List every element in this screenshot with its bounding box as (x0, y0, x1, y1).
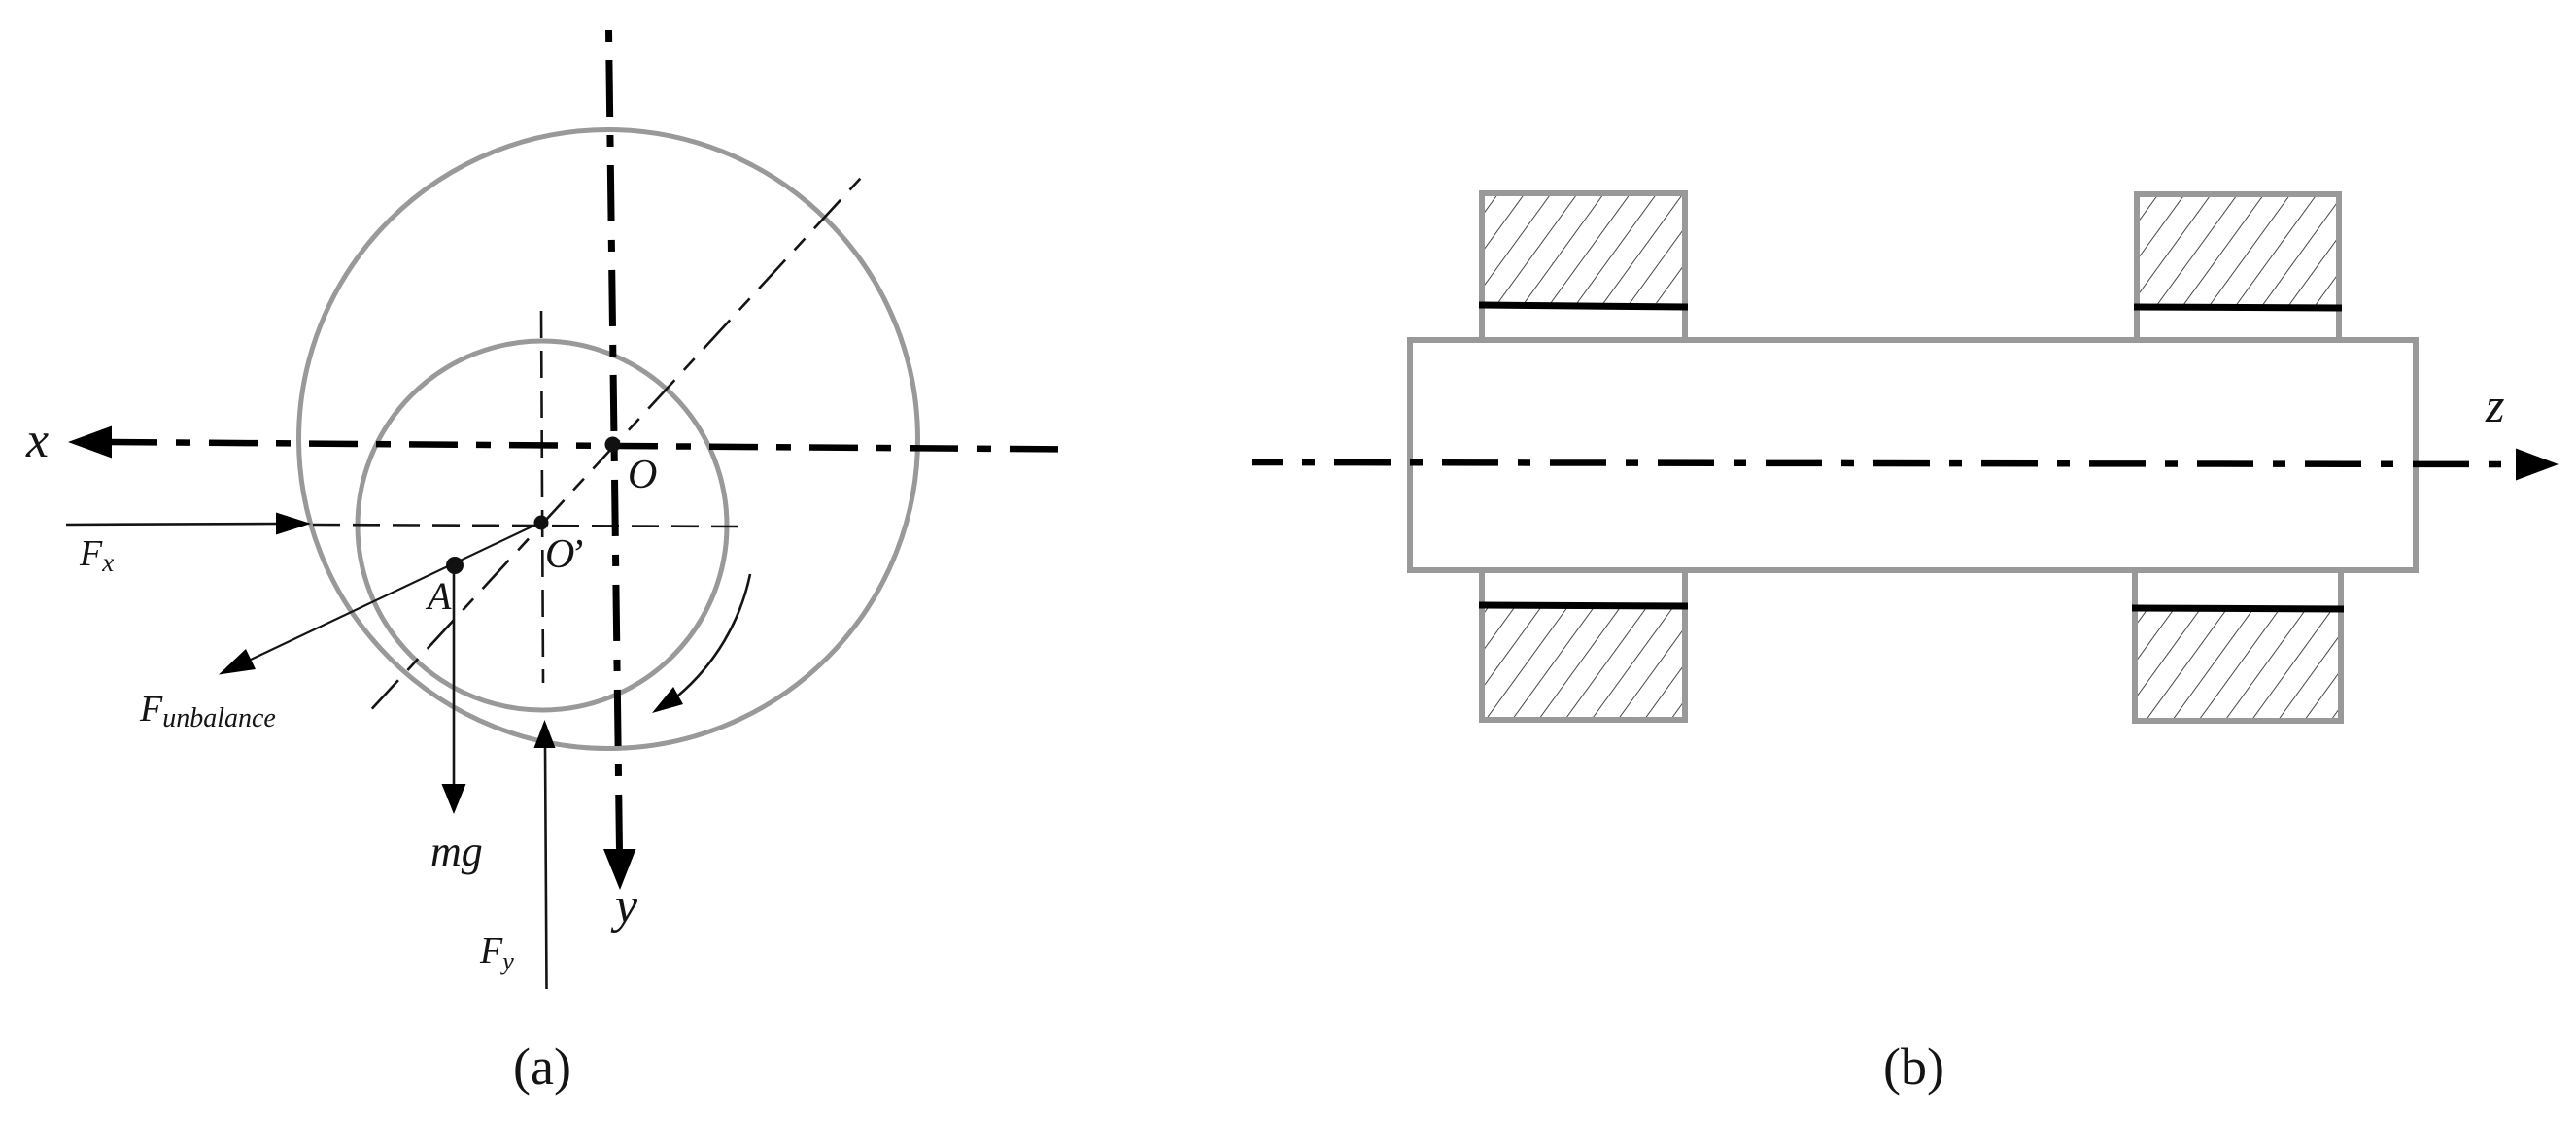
svg-text:O’: O’ (545, 532, 583, 577)
bearing bottom-left housing (1479, 567, 1688, 720)
svg-text:Funbalance: Funbalance (139, 689, 276, 733)
y-axis arrowhead (bottom) (603, 849, 636, 890)
svg-text:y: y (610, 878, 638, 934)
svg-text:Fy: Fy (479, 931, 514, 975)
node A (unbalance mass) (446, 557, 464, 574)
Fx arrow (66, 524, 280, 525)
svg-text:O: O (628, 453, 657, 497)
Fy arrow (up to inner circle bottom) (545, 746, 547, 989)
mg arrow (down from A) (453, 565, 456, 786)
dashed vertical line through O' (541, 311, 543, 683)
bearing top-right housing (2134, 194, 2342, 343)
node O (bearing centre) (605, 437, 621, 453)
y-axis dash-dot line (609, 30, 620, 851)
node O' (journal centre) (534, 516, 549, 530)
svg-text:x: x (25, 413, 49, 468)
svg-text:z: z (2485, 378, 2504, 432)
svg-text:(b): (b) (1883, 1037, 1944, 1096)
dashed horizontal line through O' (313, 525, 738, 527)
bearing bottom-right housing (2132, 569, 2344, 721)
z-axis arrowhead (2516, 449, 2559, 481)
inner journal circle (358, 341, 727, 710)
x-axis arrowhead (left) (68, 426, 112, 459)
svg-text:A: A (425, 574, 452, 618)
svg-text:(a): (a) (513, 1037, 571, 1096)
svg-text:Fx: Fx (79, 533, 114, 577)
x-axis dash-dot line (109, 442, 1067, 450)
z-axis dash-dot centerline (1252, 462, 2516, 464)
outer bearing circle (299, 130, 918, 749)
svg-text:mg: mg (430, 828, 483, 875)
rotation direction arc (678, 574, 750, 696)
F unbalance arrow (from O' through A) (251, 522, 542, 660)
diagonal dashed line through O and O' (366, 178, 861, 715)
shaft body (1410, 340, 2416, 570)
bearing top-left housing (1479, 193, 1688, 343)
